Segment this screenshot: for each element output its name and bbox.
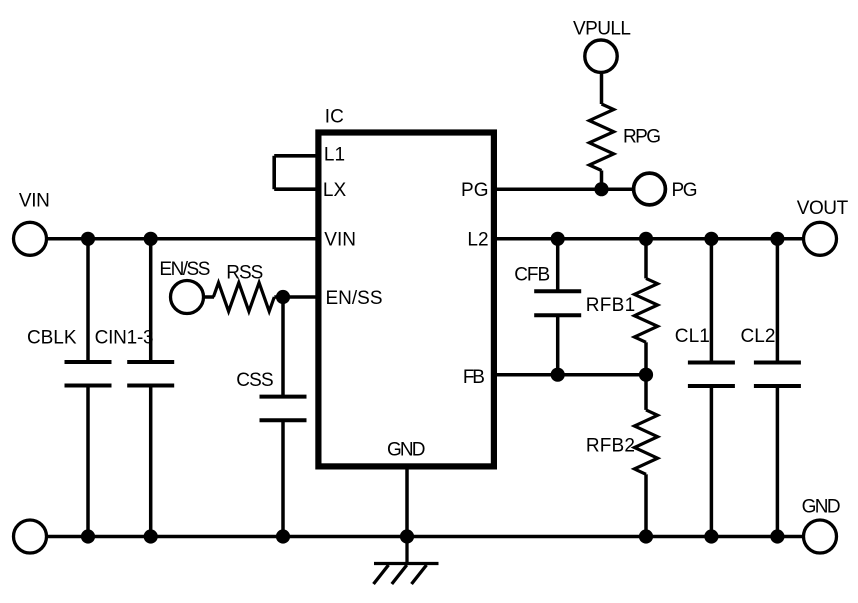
terminal VIN xyxy=(14,222,47,255)
svg-text:CIN1-3: CIN1-3 xyxy=(95,328,154,349)
resistor RSS xyxy=(213,283,274,312)
wire RFB1 top xyxy=(644,239,648,279)
wire RSS to IC EN/SS pin xyxy=(274,295,318,299)
wire CSS bottom xyxy=(281,420,285,536)
wire CL1 bottom xyxy=(710,386,714,537)
wire CFB bottom xyxy=(556,315,560,375)
capacitor CL1 xyxy=(688,363,735,387)
wire RFB2 bottom xyxy=(644,474,648,536)
node junction FB-RFB xyxy=(639,368,653,382)
svg-text:RFB1: RFB1 xyxy=(586,295,636,316)
resistor RFB1 xyxy=(634,278,657,342)
wire RFB2 top xyxy=(644,375,648,410)
wire L1-LX jumper box xyxy=(274,156,318,189)
node junction L2-CL2 xyxy=(770,232,784,246)
node junction CBLK-GND rail xyxy=(81,529,95,543)
svg-text:L2: L2 xyxy=(467,229,488,250)
node junction CL2-GND rail xyxy=(770,529,784,543)
svg-text:CL1: CL1 xyxy=(675,326,710,347)
wire VIN rail xyxy=(47,237,319,241)
wire CBLK bottom xyxy=(86,386,90,537)
wire CBLK top xyxy=(86,239,90,362)
svg-text:PG: PG xyxy=(672,180,698,201)
wire CIN1-3 top xyxy=(149,239,153,362)
svg-text:EN/SS: EN/SS xyxy=(326,288,383,309)
node junction CL1-GND rail xyxy=(704,529,718,543)
resistor RPG xyxy=(589,104,613,171)
node junction RFB2-GND rail xyxy=(639,529,653,543)
wire CFB top xyxy=(556,239,560,291)
resistor RFB2 xyxy=(634,410,657,474)
svg-text:VOUT: VOUT xyxy=(797,198,849,219)
node junction L2-CL1 xyxy=(704,232,718,246)
svg-text:CFB: CFB xyxy=(514,264,550,285)
svg-text:VIN: VIN xyxy=(19,191,50,212)
wire EN/SS to RSS xyxy=(204,295,215,299)
node junction RPG-PG xyxy=(594,182,608,196)
node junction L2-RFB1 xyxy=(639,232,653,246)
wire CL2 bottom xyxy=(776,386,780,537)
svg-text:EN/SS: EN/SS xyxy=(159,259,210,280)
svg-text:GND: GND xyxy=(387,440,426,461)
svg-text:FB: FB xyxy=(463,367,485,388)
wire FB pin xyxy=(494,373,646,377)
terminal PG xyxy=(634,173,666,205)
node junction VIN-CBLK xyxy=(81,232,95,246)
wire RPG to node xyxy=(600,171,604,190)
node junction CSS-GND rail xyxy=(276,529,290,543)
wire RFB1 bottom xyxy=(644,342,648,374)
svg-text:GND: GND xyxy=(802,497,841,518)
terminal GND bottom-left xyxy=(14,520,47,553)
node junction FB-CFB xyxy=(551,368,565,382)
ground xyxy=(374,537,439,585)
svg-text:RSS: RSS xyxy=(226,262,263,283)
wire CL1 top xyxy=(710,239,714,363)
capacitor CFB xyxy=(534,291,581,315)
svg-text:PG: PG xyxy=(461,180,489,201)
wire L2 rail to VOUT xyxy=(494,237,804,241)
node junction EN/SS-CSS xyxy=(276,290,290,304)
terminal GND right xyxy=(804,520,837,553)
wire VPULL to RPG xyxy=(600,73,604,104)
wire bottom GND rail xyxy=(47,535,804,539)
svg-text:RPG: RPG xyxy=(623,127,661,148)
svg-text:L1: L1 xyxy=(324,144,345,165)
svg-text:CSS: CSS xyxy=(236,370,274,391)
node junction VIN-CIN xyxy=(144,232,158,246)
capacitor CBLK xyxy=(65,362,112,386)
svg-text:RFB2: RFB2 xyxy=(586,435,635,456)
svg-text:LX: LX xyxy=(323,180,347,201)
capacitor CIN1-3 xyxy=(127,362,174,386)
svg-text:VPULL: VPULL xyxy=(573,19,631,40)
op-amp U1 : IC body xyxy=(318,133,494,467)
terminal EN/SS xyxy=(171,281,204,314)
node junction CIN-GND rail xyxy=(144,529,158,543)
node junction GND pin-rail xyxy=(400,529,414,543)
capacitor CL2 xyxy=(754,363,801,387)
node junction L2-CFB xyxy=(551,232,565,246)
terminal VPULL xyxy=(585,40,617,72)
wire CIN1-3 bottom xyxy=(149,386,153,537)
svg-text:CL2: CL2 xyxy=(741,326,776,347)
capacitor CSS xyxy=(260,397,307,421)
wire CSS top xyxy=(281,297,285,397)
wire IC GND pin xyxy=(405,466,409,536)
terminal VOUT xyxy=(804,222,837,255)
wire PG pin to PG terminal xyxy=(494,187,633,191)
svg-text:VIN: VIN xyxy=(324,229,356,250)
svg-text:CBLK: CBLK xyxy=(27,328,77,349)
wire CL2 top xyxy=(776,239,780,363)
svg-text:IC: IC xyxy=(325,107,344,128)
